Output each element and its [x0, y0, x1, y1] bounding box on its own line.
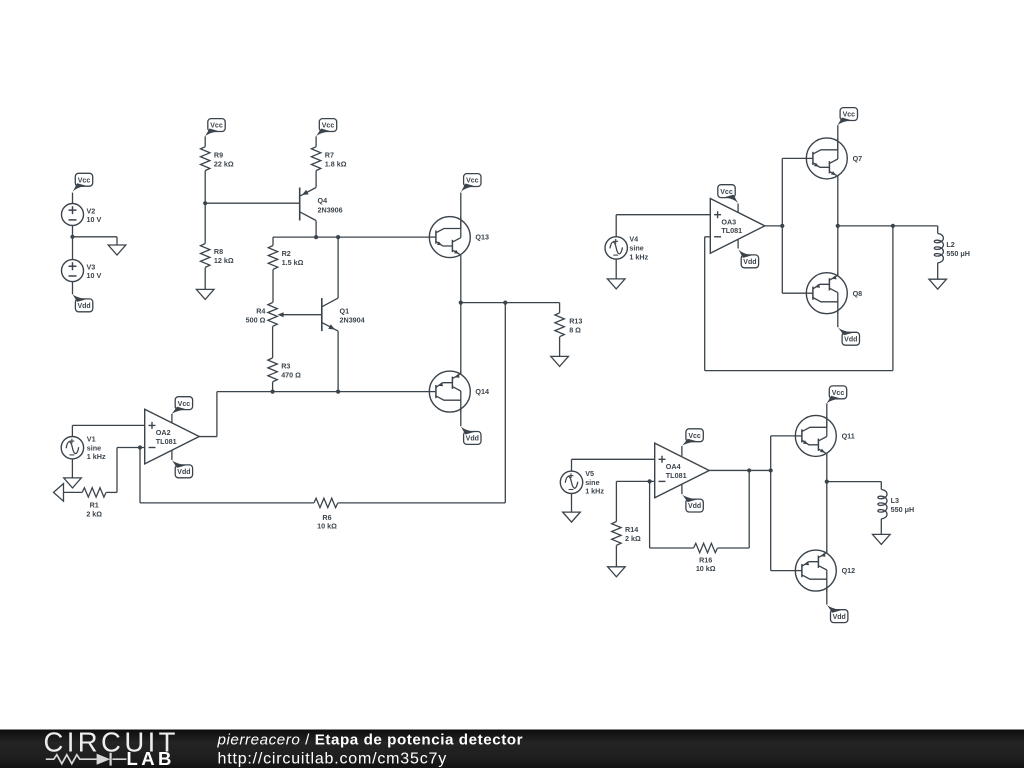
svg-text:Q8: Q8	[853, 289, 863, 298]
svg-text:TL081: TL081	[721, 226, 742, 235]
svg-text:L3: L3	[891, 496, 899, 505]
svg-text:Vdd: Vdd	[844, 336, 857, 343]
wire	[315, 221, 317, 238]
transistor Q4	[300, 188, 316, 221]
node V2-V3 midpoint	[70, 235, 74, 239]
label V5 value	[585, 469, 604, 496]
op-amp OA2	[145, 409, 200, 464]
label R2 value	[282, 249, 304, 267]
svg-text:R9: R9	[214, 150, 223, 159]
svg-text:470 Ω: 470 Ω	[281, 371, 301, 380]
svg-text:pierreacero / Etapa de potenci: pierreacero / Etapa de potencia detector	[217, 732, 524, 749]
transistor Q11	[795, 415, 837, 456]
transistor Q1	[322, 298, 338, 331]
node Q7-Q8 on rail	[836, 224, 840, 228]
svg-text:R14: R14	[625, 525, 638, 534]
label R1 value	[86, 501, 102, 519]
wire	[273, 236, 429, 238]
svg-text:550 μH: 550 μH	[946, 249, 970, 258]
wire	[880, 519, 882, 535]
voltage source V2	[62, 204, 84, 226]
svg-text:1 kHz: 1 kHz	[585, 487, 604, 496]
svg-text:R13: R13	[569, 317, 582, 326]
wire	[771, 435, 796, 437]
wire	[460, 193, 462, 229]
node OA4 minus	[648, 479, 652, 483]
label L2 value	[946, 240, 970, 258]
svg-text:sine: sine	[585, 478, 599, 487]
svg-text:V2: V2	[87, 206, 96, 215]
wire	[337, 331, 339, 392]
svg-text:R3: R3	[281, 362, 290, 371]
node OA2 minus	[138, 445, 142, 449]
svg-text:2 kΩ: 2 kΩ	[625, 534, 641, 543]
svg-text:http://circuitlab.com/cm35c7y: http://circuitlab.com/cm35c7y	[218, 751, 448, 768]
transistor Q14	[429, 371, 471, 412]
svg-text:10 kΩ: 10 kΩ	[317, 522, 337, 531]
label OA4 TL081	[666, 462, 687, 480]
ground	[551, 356, 569, 366]
label Q12	[842, 566, 856, 575]
wire	[937, 263, 939, 279]
label Q14	[475, 387, 489, 396]
node Q13-Q14 output	[459, 301, 463, 305]
svg-text:Q11: Q11	[842, 432, 855, 441]
wire OA3 output	[765, 225, 783, 227]
svg-text:V4: V4	[629, 235, 638, 244]
resistor R8	[201, 244, 210, 268]
wire	[315, 136, 317, 146]
wire	[272, 270, 274, 303]
svg-text:V5: V5	[585, 469, 594, 478]
power flag Vcc (R9 top)	[205, 119, 226, 138]
transistor Q12	[795, 550, 837, 591]
label R9 value	[214, 150, 234, 168]
svg-text:1 kHz: 1 kHz	[629, 252, 648, 261]
label OA2 TL081	[156, 428, 177, 446]
voltage source V1 sine	[61, 437, 83, 459]
svg-text:Q13: Q13	[475, 233, 489, 242]
svg-text:2N3904: 2N3904	[340, 316, 365, 325]
label V4 value	[629, 235, 648, 262]
power flag Vdd (OA4)	[681, 493, 703, 512]
wire	[782, 157, 806, 159]
node R16 top	[747, 468, 751, 472]
wire	[826, 588, 828, 605]
transistor Q7	[806, 138, 848, 179]
wire	[204, 171, 206, 244]
label Q4 2N3906	[318, 196, 343, 214]
node OA4 out	[769, 468, 773, 472]
resistor R9	[201, 147, 210, 171]
wire	[72, 226, 74, 260]
svg-text:OA3: OA3	[721, 217, 736, 226]
label R6 value	[317, 513, 337, 531]
wire	[72, 193, 74, 204]
resistor R3	[268, 358, 277, 382]
label V1 value	[87, 435, 106, 462]
svg-text:OA4: OA4	[666, 462, 681, 471]
svg-text:R4: R4	[256, 307, 265, 316]
power flag Vcc (Q7 top)	[837, 108, 857, 127]
wire	[338, 303, 505, 503]
resistor R1	[82, 488, 106, 497]
label R16 value	[696, 555, 716, 573]
wire OA4 output	[709, 469, 771, 471]
wire	[782, 292, 806, 294]
svg-text:TL081: TL081	[666, 471, 687, 480]
voltage source V5 sine	[560, 471, 582, 493]
resistor R7	[311, 147, 320, 171]
wire	[73, 237, 118, 245]
wire out rail	[838, 225, 938, 227]
svg-text:R7: R7	[325, 150, 334, 159]
wire	[615, 259, 617, 279]
wire	[272, 327, 274, 358]
wire	[837, 125, 839, 150]
wire	[718, 470, 750, 548]
svg-text:TL081: TL081	[156, 437, 177, 446]
label Q7	[853, 154, 863, 163]
node L2 rail tap	[891, 224, 895, 228]
svg-text:sine: sine	[629, 244, 643, 253]
svg-text:500 Ω: 500 Ω	[246, 316, 266, 325]
wire	[771, 570, 796, 572]
power flag Vdd (Q14 bottom)	[460, 425, 481, 444]
svg-text:Vcc: Vcc	[178, 401, 191, 408]
node Q1 emitter on rail	[336, 390, 340, 394]
node Q11-Q12 out	[825, 480, 829, 484]
svg-text:R2: R2	[282, 249, 291, 258]
wire	[615, 481, 617, 521]
svg-text:1 kHz: 1 kHz	[87, 452, 106, 461]
label V3 value	[87, 262, 102, 280]
transistor Q13	[429, 217, 471, 258]
power flag Vcc (OA3)	[718, 185, 739, 205]
inductor L2	[934, 234, 943, 263]
power flag Vdd (Q8 bottom)	[837, 326, 859, 345]
svg-text:R8: R8	[214, 247, 223, 256]
power flag Vdd (OA2)	[171, 459, 192, 478]
voltage source V4 sine	[605, 237, 627, 259]
label OA3 TL081	[721, 217, 742, 235]
logo resistor-diode symbol	[46, 753, 127, 766]
label R3 value	[281, 362, 301, 380]
wire	[615, 546, 617, 567]
wire	[460, 258, 462, 303]
svg-text:V3: V3	[87, 262, 96, 271]
label Q8	[853, 289, 863, 298]
label Q13	[475, 233, 489, 242]
svg-text:1.5 kΩ: 1.5 kΩ	[282, 258, 304, 267]
wire OA4 minus input	[616, 480, 654, 482]
svg-text:8 Ω: 8 Ω	[569, 325, 581, 334]
ground	[196, 289, 214, 299]
node R3 top of rail	[271, 390, 275, 394]
svg-text:Vcc: Vcc	[832, 390, 845, 397]
wire	[315, 171, 317, 188]
svg-text:sine: sine	[87, 443, 101, 452]
footer url text	[218, 751, 448, 768]
wire	[880, 482, 882, 490]
op-amp OA4	[655, 443, 710, 498]
wire	[272, 382, 274, 392]
ground	[873, 534, 891, 544]
wire OA2 minus input	[117, 447, 145, 449]
wire	[826, 482, 828, 554]
ground	[563, 512, 581, 522]
wire	[460, 303, 462, 375]
wire	[217, 391, 430, 393]
svg-text:2N3906: 2N3906	[318, 205, 343, 214]
label R14 value	[625, 525, 641, 543]
transistor Q8	[806, 273, 848, 314]
resistor R13	[555, 313, 564, 337]
wire	[826, 457, 828, 482]
svg-text:OA2: OA2	[156, 428, 171, 437]
svg-text:550 μH: 550 μH	[891, 505, 915, 514]
svg-text:R6: R6	[322, 513, 331, 522]
svg-text:LAB: LAB	[127, 748, 175, 768]
wire	[71, 459, 73, 478]
node Q4 collector	[314, 235, 318, 239]
svg-text:Vdd: Vdd	[466, 436, 479, 443]
wire OA4 Vcc stub	[681, 446, 683, 456]
label L3 value	[891, 496, 915, 514]
svg-text:R1: R1	[90, 501, 99, 510]
ground	[108, 245, 126, 255]
svg-text:10 V: 10 V	[87, 215, 102, 224]
wire	[337, 237, 339, 298]
label R8 value	[214, 247, 234, 265]
svg-text:2 kΩ: 2 kΩ	[86, 510, 102, 519]
svg-text:Vdd: Vdd	[743, 259, 756, 266]
label R4 value	[246, 307, 266, 325]
power flag Vcc (Q13 top)	[460, 174, 481, 194]
svg-text:Vdd: Vdd	[177, 469, 190, 476]
svg-text:Q1: Q1	[340, 306, 350, 315]
node R9-R8-Q4base	[203, 201, 207, 205]
svg-text:12 kΩ: 12 kΩ	[214, 256, 234, 265]
wire	[559, 303, 561, 313]
svg-text:Vcc: Vcc	[322, 123, 335, 130]
resistor R16	[694, 543, 718, 552]
ground (rotated)	[54, 484, 64, 502]
wire	[559, 337, 561, 357]
svg-text:Vcc: Vcc	[466, 178, 479, 185]
wire R4 wiper	[277, 312, 321, 317]
svg-text:10 V: 10 V	[87, 271, 102, 280]
power flag Vcc (R7 top)	[315, 119, 336, 138]
svg-text:Q12: Q12	[842, 566, 856, 575]
wire	[571, 494, 573, 513]
power flag Vcc (OA2)	[171, 397, 192, 415]
svg-text:Q7: Q7	[853, 154, 863, 163]
wire	[781, 158, 783, 293]
svg-text:Q14: Q14	[475, 387, 489, 396]
wire	[837, 226, 839, 276]
wire	[826, 404, 828, 428]
node OA3 out	[780, 224, 784, 228]
svg-text:Vcc: Vcc	[78, 177, 91, 184]
wire	[72, 282, 74, 295]
label Q11	[842, 432, 855, 441]
resistor R6	[314, 498, 338, 507]
wire	[837, 179, 839, 226]
ground	[929, 279, 947, 289]
svg-text:V1: V1	[87, 435, 96, 444]
power flag Vdd (V3 bottom)	[72, 293, 93, 312]
svg-text:Vdd: Vdd	[77, 303, 90, 310]
voltage source V3	[62, 260, 84, 282]
svg-text:Vdd: Vdd	[688, 503, 701, 510]
wire	[616, 215, 710, 237]
svg-text:Vdd: Vdd	[833, 614, 846, 621]
op-amp OA3	[710, 199, 765, 254]
resistor R4 (pot)	[268, 303, 277, 327]
wire	[204, 136, 206, 146]
ground	[607, 279, 625, 289]
logo CIRCUIT text	[44, 727, 179, 758]
wire OA2 Vcc stub	[171, 414, 173, 423]
resistor R2	[268, 246, 277, 270]
wire	[650, 481, 694, 548]
wire	[272, 237, 274, 245]
node feedback tap	[503, 301, 507, 305]
wire	[116, 448, 118, 493]
svg-text:Vcc: Vcc	[720, 189, 733, 196]
power flag Vdd (OA3)	[737, 248, 758, 268]
inductor L3	[878, 490, 887, 519]
resistor R14	[612, 522, 621, 546]
wire out rail	[827, 481, 882, 483]
wire	[140, 448, 314, 503]
power flag Vdd (Q12 bottom)	[826, 604, 848, 623]
footer bar	[0, 730, 1024, 768]
wire	[460, 409, 462, 426]
node Q1 collector top	[336, 235, 340, 239]
label R7 value	[325, 150, 347, 168]
wire	[64, 491, 83, 493]
svg-text:10 kΩ: 10 kΩ	[696, 564, 716, 573]
power flag Vcc (V2 top)	[72, 173, 93, 193]
power flag Vcc (OA4)	[681, 429, 703, 447]
wire	[837, 310, 839, 327]
svg-text:Vcc: Vcc	[210, 123, 223, 130]
wire	[205, 202, 300, 204]
wire OA3 feedback	[705, 226, 893, 371]
wire	[461, 302, 560, 304]
wire OA4 Vdd stub	[681, 484, 683, 494]
logo LAB text	[127, 748, 175, 768]
wire OA2 output	[199, 392, 217, 437]
wire	[204, 268, 206, 290]
svg-text:1.8 kΩ: 1.8 kΩ	[325, 159, 347, 168]
wire	[106, 491, 117, 493]
ground	[608, 567, 626, 577]
label V2 value	[87, 206, 102, 224]
wire OA2 Vdd stub	[171, 450, 173, 460]
svg-text:22 kΩ: 22 kΩ	[214, 159, 234, 168]
footer title text	[217, 732, 524, 749]
wire	[72, 425, 144, 436]
wire	[937, 226, 939, 234]
svg-text:Vcc: Vcc	[843, 112, 856, 119]
wire OA3 Vcc stub	[737, 204, 739, 213]
svg-text:Vcc: Vcc	[688, 433, 701, 440]
svg-text:L2: L2	[946, 240, 954, 249]
label Q1 2N3904	[340, 306, 365, 324]
wire	[572, 459, 655, 471]
ground	[64, 478, 82, 488]
wire	[770, 436, 772, 571]
svg-text:R16: R16	[699, 555, 712, 564]
svg-text:Q4: Q4	[318, 196, 328, 205]
wire OA3 Vdd stub	[737, 240, 739, 249]
label R13 value	[569, 317, 582, 335]
power flag Vcc (Q11 top)	[826, 386, 847, 405]
